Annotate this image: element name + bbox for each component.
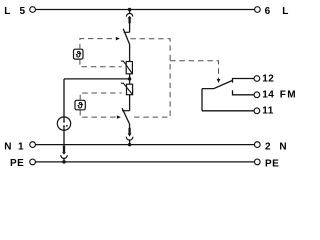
varistor RV2	[121, 83, 133, 95]
terminal 5 L	[30, 7, 36, 13]
wire stem to switch F1	[129, 23, 131, 32]
terminal 11	[254, 108, 260, 114]
dashed branch to FM contact	[170, 61, 218, 79]
svg-text:2: 2	[265, 141, 271, 152]
wire node M down to gas tube	[63, 79, 65, 118]
disconnector switch F2	[122, 108, 130, 124]
svg-text:1: 1	[18, 141, 24, 152]
svg-text:5: 5	[20, 6, 26, 17]
wire 11 riser	[201, 89, 203, 111]
contact 14 fixed	[233, 90, 255, 95]
svg-text:N: N	[4, 141, 12, 152]
svg-text:11: 11	[262, 106, 273, 117]
terminal 1 N	[30, 142, 36, 148]
dashed T1 sensing varistor1	[80, 59, 122, 67]
svg-text:12: 12	[262, 73, 274, 84]
contact blade FM	[202, 81, 232, 89]
svg-text:14: 14	[262, 90, 274, 101]
svg-text:L: L	[4, 6, 11, 17]
disconnector switch F1	[123, 29, 129, 45]
svg-text:L: L	[282, 6, 289, 17]
wire switch F2 to plug	[129, 124, 131, 128]
plug-in connection gas tube to PE	[61, 146, 68, 162]
junction node N	[128, 143, 132, 147]
remote contact FM changeover	[202, 79, 254, 111]
contact 12 fixed	[233, 79, 255, 83]
wire varistor1 to node M	[129, 74, 131, 85]
svg-text:PE: PE	[265, 158, 279, 169]
wire varistor2 to switch F2	[129, 94, 131, 110]
junction node PE	[62, 160, 66, 164]
arrow actuation F2	[117, 115, 121, 119]
wire gas tube to plug crossing N	[63, 130, 65, 146]
svg-text:FM: FM	[280, 90, 297, 101]
arrow actuation FM	[217, 79, 221, 83]
terminal PE right	[254, 159, 260, 165]
junction node M	[128, 77, 132, 81]
terminal 12	[254, 76, 260, 82]
wire L rail	[36, 9, 255, 11]
terminal 2 N	[254, 142, 260, 148]
svg-text:6: 6	[265, 6, 271, 17]
plug-in connection top (socket + plug arrow)	[126, 13, 132, 23]
wire switch F1 to varistor	[129, 44, 131, 62]
terminal 6 L	[255, 7, 261, 13]
svg-text:ϑ: ϑ	[76, 50, 82, 61]
gas discharge tube F3	[57, 117, 70, 130]
dashed T2 to switch F2 actuation	[80, 110, 117, 117]
svg-text:PE: PE	[10, 158, 24, 169]
thermal monitor box T1	[74, 49, 84, 61]
dashed linkage lines	[80, 39, 219, 118]
dashed trip bus right of F1 down to F2	[130, 39, 170, 117]
terminal PE left	[30, 159, 36, 165]
terminal 14	[254, 92, 260, 98]
junction node L	[128, 8, 132, 12]
wire PE rail	[36, 161, 255, 163]
svg-text:N: N	[279, 141, 287, 152]
dashed T1 to switch F1 actuation	[80, 39, 116, 50]
thermal monitor box T2	[75, 100, 85, 111]
wire node M horizontal	[64, 78, 130, 80]
plug-in connection bottom main axis	[126, 128, 133, 145]
varistor RV1	[121, 61, 133, 74]
dashed T2 sensing varistor2	[80, 93, 121, 100]
wire main axis top	[129, 10, 131, 14]
arrow actuation F1	[116, 37, 120, 41]
wire terminal 11 line	[202, 110, 254, 112]
wire N rail	[36, 144, 255, 146]
